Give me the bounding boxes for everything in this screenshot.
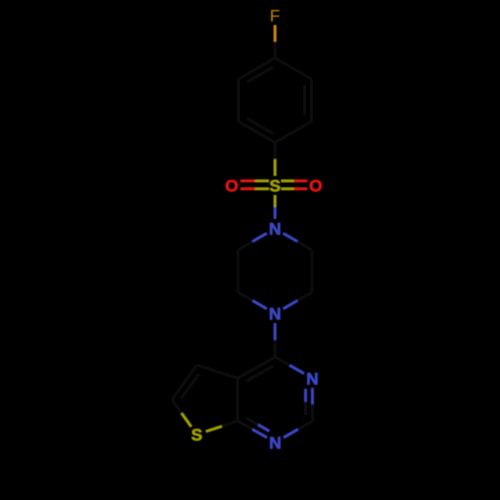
piperazine bond C6-N1: [238, 233, 267, 250]
benzene double bond C6=C1 (inner line): [247, 67, 273, 82]
thiophene bond S7-C7a: [206, 421, 238, 432]
pyrimidine double bond N3=C2 (inner line): [304, 389, 307, 415]
piperazine bond C5-C6: [237, 250, 240, 292]
double bond S=O OL lower line: [240, 187, 269, 190]
benzene double bond C2=C3 (inner line): [303, 85, 306, 116]
benzene bond C5-C6: [237, 79, 240, 122]
benzene double bond C4=C5: [239, 122, 275, 143]
thiophene bond C4a-C5: [197, 365, 238, 378]
bond F-C1: [274, 25, 277, 58]
pyrimidine double bond N1=C7a (inner line): [246, 418, 269, 431]
benzene double bond C2=C3: [310, 79, 313, 122]
pyrimidine double bond N1=C7a: [238, 421, 267, 438]
svg-text:N: N: [269, 220, 281, 239]
benzene bond C1-C2: [275, 58, 311, 79]
pyrimidine bond C4-N3: [275, 357, 304, 374]
benzene double bond C6=C1: [239, 58, 275, 79]
svg-text:F: F: [270, 7, 280, 26]
benzene bond C3-C4: [275, 122, 311, 143]
bond S-N (to piperazine): [274, 195, 277, 219]
double bond S=O OR upper line: [281, 179, 307, 182]
piperazine bond C3-N4: [283, 292, 312, 309]
piperazine bond C2-C3: [310, 250, 313, 292]
svg-text:O: O: [225, 177, 238, 196]
bond C4-S (sulfonyl): [274, 143, 277, 177]
svg-text:N: N: [306, 369, 318, 388]
svg-text:N: N: [269, 433, 281, 452]
fusion bond C7a-C4a: [236, 378, 239, 421]
svg-text:S: S: [269, 177, 280, 196]
bond N4-C4 (piperazine to thienopyrimidine): [274, 323, 277, 357]
thiophene double bond C5=C6: [172, 365, 197, 400]
pyrimidine double bond C4a=C4 (inner line): [246, 366, 273, 381]
svg-text:S: S: [191, 426, 202, 445]
pyrimidine bond C2-N1: [284, 421, 313, 438]
svg-text:N: N: [269, 305, 281, 324]
pyrimidine double bond C4a=C4: [238, 357, 275, 378]
double bond S=O OR lower line: [281, 187, 307, 190]
piperazine bond N4-C5: [238, 292, 267, 309]
thiophene bond C6-S7: [172, 400, 191, 427]
piperazine bond N1-C2: [283, 233, 312, 250]
benzene double bond C4=C5 (inner line): [247, 119, 273, 134]
svg-text:O: O: [309, 177, 322, 196]
pyrimidine double bond N3=C2: [311, 388, 314, 421]
double bond S=O OL upper line: [240, 179, 269, 182]
thiophene double bond C5=C6 (inner line): [181, 374, 199, 399]
